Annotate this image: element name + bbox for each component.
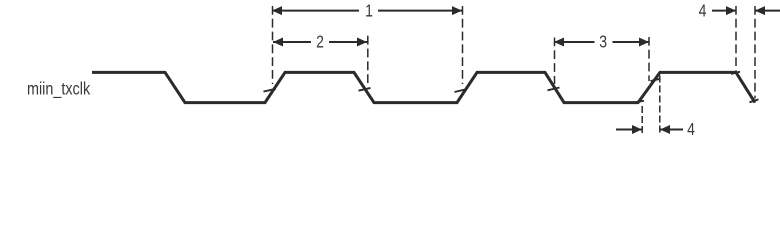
svg-text:1: 1 (365, 2, 373, 21)
svg-text:3: 3 (599, 33, 607, 52)
svg-text:miin_txclk: miin_txclk (27, 79, 91, 99)
svg-text:2: 2 (316, 33, 324, 52)
svg-text:4: 4 (687, 121, 695, 136)
svg-text:4: 4 (699, 2, 707, 21)
